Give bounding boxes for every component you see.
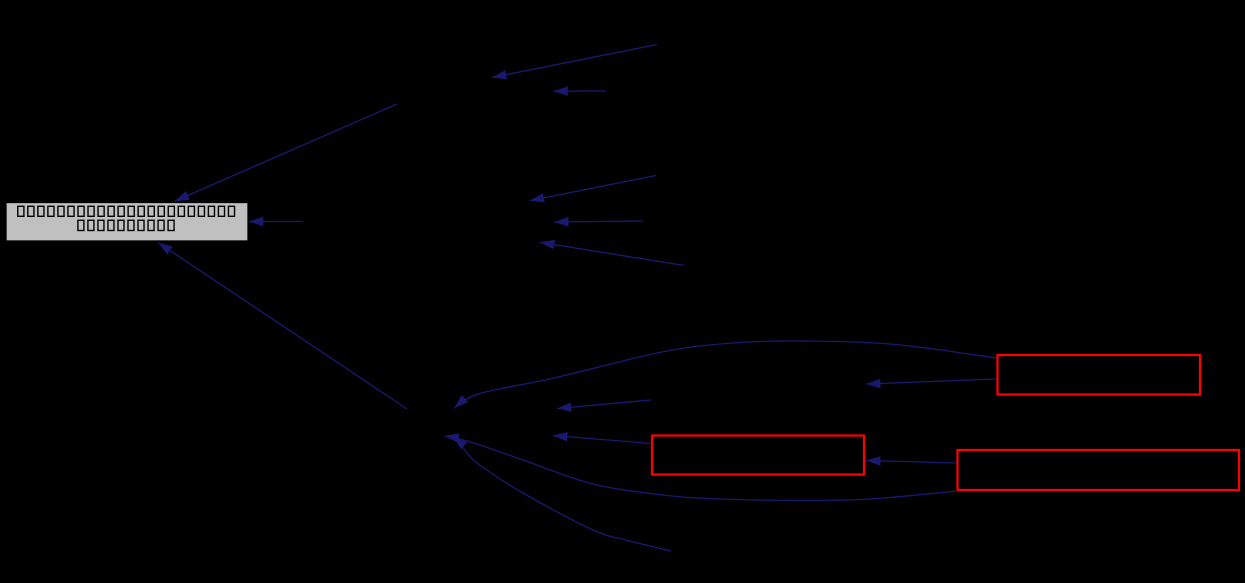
tofu glyph row 2 (10 boxes) [78, 220, 174, 230]
node: red truncated box 2 (middle) [652, 436, 864, 475]
node: red truncated box 1 (top right) [998, 355, 1201, 395]
edge E11: red box 2 into node D lower-left [553, 436, 652, 444]
edge E5: caller into invisible node B (upper) [530, 176, 656, 201]
edge E7: caller into node B (lower) [540, 242, 684, 265]
edge E10: caller into invisible node D (above red box 2) [557, 400, 651, 409]
edge E8: invisible node C up-left into grey node bottom [158, 243, 407, 410]
edge E14: red box 1 into invisible node F [866, 379, 997, 384]
edge E13: curve from bottom caller into node C [454, 436, 672, 551]
edge E3: node A down-left into grey node top [175, 104, 398, 201]
node: current function (grey filled box with unrenderable CJK glyph boxes) [6, 203, 248, 242]
edge E6: caller into node B (middle, horizontal) [554, 221, 643, 222]
node: red truncated box 3 (bottom right) [958, 450, 1240, 490]
edge E4: short arrow into grey node right side [249, 221, 303, 223]
edge E15: red box 3 into red box 2 right side [866, 461, 957, 464]
tofu glyph row 1 (22 boxes) [18, 206, 235, 216]
edge E9: curve from red box 1 into node C [454, 341, 996, 408]
edge E2: short caller arrow into node A right side [553, 90, 606, 92]
edge E12: curve from red box 3 bottom into node C [444, 436, 958, 501]
edge E1: caller into invisible node A (top) [492, 45, 657, 78]
